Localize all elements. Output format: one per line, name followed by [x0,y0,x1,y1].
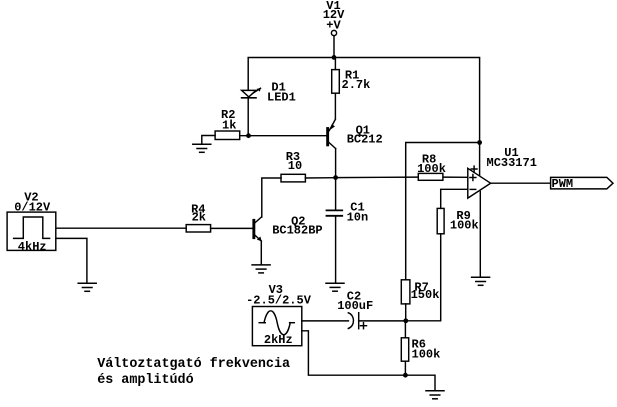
svg-text:-2.5/2.5V: -2.5/2.5V [246,294,312,308]
svg-text:BC212: BC212 [347,133,383,147]
source V2 [7,190,56,254]
LED D1 [242,80,296,135]
ground at C1 [326,283,344,291]
node R6 bottom [403,373,408,378]
wire rail to R7 branch [406,143,480,280]
caption text [97,357,290,388]
resistor R9 [406,189,479,320]
wire node to R8 and op-amp + input [336,176,419,179]
output wire to PWM flag [491,182,551,184]
resistor R1 [332,58,371,120]
ground at op-amp V- [472,277,490,285]
svg-text:BC182BP: BC182BP [272,224,322,238]
PWM flag [551,177,613,191]
svg-text:1k: 1k [222,118,236,132]
source V3 [246,283,312,347]
resistor R8 [417,152,446,180]
svg-text:100k: 100k [417,162,446,176]
svg-text:100k: 100k [412,348,441,362]
svg-text:és amplitúdó: és amplitúdó [97,373,193,388]
transistor Q1 BC212 (PNP) [326,120,383,178]
svg-text:LED1: LED1 [267,90,296,104]
svg-text:100uF: 100uF [337,299,373,313]
svg-text:10: 10 [288,159,302,173]
capacitor C2 [337,290,406,329]
node D1/R2/Q1 base [246,133,251,138]
wire V3 minus to R6 node [302,331,406,375]
resistor R6 [401,321,440,375]
node Q1 collector / R3 / R8 / C1 [333,175,338,180]
wire V2 minus to ground [56,238,87,282]
ground at R6 [426,391,444,399]
resistor R2 [202,108,326,144]
resistor R4 [56,203,253,232]
svg-text:100k: 100k [450,219,479,233]
svg-text:2kHz: 2kHz [264,333,293,347]
svg-text:2k: 2k [192,211,206,225]
ground at Q2 emitter [252,265,270,273]
V1 +V terminal circle [331,30,336,35]
node at right rail / R7 branch [477,140,482,145]
node at V1 on rail [332,55,337,60]
op-amp U1 MC33171 [468,146,537,277]
wire V3 plus to C2 [302,320,349,322]
svg-text:MC33171: MC33171 [487,156,537,170]
svg-text:150k: 150k [411,288,440,302]
svg-text:0/12V: 0/12V [14,200,51,214]
svg-text:2.7k: 2.7k [342,78,371,92]
resistor R3 [262,150,336,217]
V1 label [323,0,345,33]
resistor R7 [401,280,439,321]
svg-text:10n: 10n [347,210,369,224]
transistor Q2 BC182BP (NPN) [252,215,322,265]
wire V1 terminal to rail [333,36,335,58]
wire R6 bottom to ground [405,375,435,390]
node R7/R6/C2/R9 [403,318,408,323]
svg-text:4kHz: 4kHz [18,240,47,254]
svg-text:Változtatgató frekvencia: Változtatgató frekvencia [97,357,290,372]
capacitor C1 [327,178,369,283]
wire top +V rail [248,58,479,177]
ground at V2 [78,283,96,291]
ground at R2 [193,144,211,152]
svg-text:PWM: PWM [552,177,574,191]
